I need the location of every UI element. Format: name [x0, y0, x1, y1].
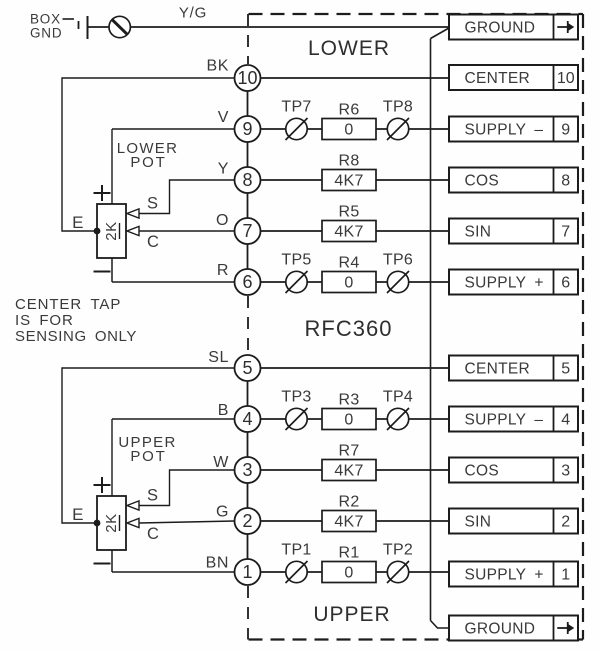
svg-text:5: 5	[561, 361, 570, 378]
plus polarity mark (upper pot)	[94, 477, 111, 493]
test point TP3	[286, 408, 308, 430]
svg-text:O: O	[216, 212, 229, 229]
value 0 of R1	[344, 565, 353, 582]
pin number 10	[237, 68, 257, 88]
potentiometer lower pot body 2K	[97, 204, 126, 258]
pin 1 circle	[235, 559, 261, 585]
resistor R5	[322, 221, 376, 242]
svg-text:G: G	[216, 504, 229, 521]
label O wire colour	[216, 212, 229, 229]
svg-text:0: 0	[344, 565, 353, 582]
svg-text:CENTER: CENTER	[465, 70, 531, 87]
wire lower pot sense S (from pin 8)	[139, 180, 235, 214]
value 4K7 of R8	[334, 173, 363, 190]
svg-text:SUPPLY +: SUPPLY +	[465, 567, 544, 584]
RFC360 module dashed outline (bottom border)	[249, 638, 584, 640]
svg-text:BN: BN	[206, 555, 229, 572]
wire upper pot sense S (from pin 3)	[139, 470, 235, 506]
label R4	[338, 255, 359, 272]
svg-text:0: 0	[344, 412, 353, 429]
svg-text:TP2: TP2	[383, 542, 413, 559]
svg-text:TP4: TP4	[383, 389, 413, 406]
label R1	[338, 545, 359, 562]
svg-text:4: 4	[242, 409, 252, 429]
value 2K of upper pot	[103, 513, 120, 532]
resistor R8	[322, 170, 376, 191]
wire lower pot wiper C (from pin 7)	[139, 230, 235, 232]
pin number 8	[242, 170, 252, 190]
svg-text:SENSING ONLY: SENSING ONLY	[15, 328, 137, 345]
svg-text:BOX: BOX	[30, 12, 61, 27]
screw terminal (box ground stud)	[109, 16, 130, 37]
pin number 9	[242, 119, 252, 139]
label R2	[338, 494, 359, 511]
svg-text:GROUND: GROUND	[465, 20, 536, 37]
wire Y/G (screw terminal to GROUND box)	[130, 26, 449, 28]
svg-text:4K7: 4K7	[334, 514, 363, 531]
svg-text:R1: R1	[338, 545, 359, 562]
svg-text:TP1: TP1	[281, 542, 311, 559]
svg-text:GROUND: GROUND	[465, 621, 536, 638]
label TP3	[281, 389, 311, 406]
signal box CENTER 10	[449, 65, 578, 90]
wire pin 8 to connector row	[260, 179, 450, 181]
resistor R4	[322, 272, 376, 293]
lower pot wiper arrow C	[127, 226, 139, 235]
pin 2 circle	[235, 508, 261, 534]
svg-text:R: R	[217, 262, 229, 279]
svg-text:R5: R5	[338, 204, 359, 221]
svg-text:0: 0	[344, 122, 353, 139]
node E junction dot (lower pot)	[94, 228, 101, 235]
svg-text:TP8: TP8	[383, 99, 413, 116]
wire pin 4 to connector row	[260, 418, 450, 420]
wire pin 1 to connector row	[260, 571, 450, 573]
signal box COS 3	[449, 458, 578, 483]
label R3	[338, 392, 359, 409]
svg-text:4K7: 4K7	[334, 224, 363, 241]
svg-text:1: 1	[561, 567, 570, 584]
svg-text:6: 6	[561, 275, 570, 292]
svg-text:C: C	[147, 525, 159, 543]
pin number 5	[242, 358, 252, 378]
RFC360 module dashed outline (left border, between pin 6 and pin 5)	[247, 296, 249, 354]
svg-text:BK: BK	[206, 58, 229, 75]
signal box SIN 7	[449, 219, 578, 244]
ground arrow symbol (lower)	[557, 622, 574, 634]
label SL wire colour	[208, 349, 229, 366]
label TP6	[383, 252, 413, 269]
note CENTER TAP IS FOR SENSING ONLY	[15, 296, 137, 345]
label RFC360 (module name)	[305, 316, 393, 341]
node E junction dot (upper pot)	[94, 520, 101, 527]
svg-text:POT: POT	[130, 448, 166, 465]
svg-text:8: 8	[561, 173, 570, 190]
svg-text:9: 9	[561, 122, 570, 139]
svg-text:2: 2	[561, 514, 570, 531]
label V wire colour	[218, 109, 229, 126]
label Y/G	[179, 5, 207, 22]
svg-text:Y/G: Y/G	[179, 5, 207, 22]
label G wire colour	[216, 504, 229, 521]
svg-text:LOWER: LOWER	[308, 37, 390, 60]
svg-text:10: 10	[237, 68, 257, 88]
resistor R1	[322, 562, 376, 583]
potentiometer upper pot body 2K	[97, 496, 126, 550]
label BK wire colour	[206, 58, 229, 75]
wire pin 10 to connector row	[260, 77, 450, 79]
svg-text:IS FOR: IS FOR	[15, 312, 74, 329]
svg-text:W: W	[213, 454, 229, 471]
signal box COS 8	[449, 168, 578, 193]
svg-text:5: 5	[242, 358, 252, 378]
svg-text:COS: COS	[465, 463, 500, 480]
svg-text:7: 7	[561, 224, 570, 241]
wire lower pot center tap E (from pin 10)	[62, 78, 235, 231]
pin number 3	[242, 460, 252, 480]
wire pin 3 to connector row	[260, 469, 450, 471]
wire upper pot center tap E (from pin 5)	[62, 368, 235, 523]
svg-text:SIN: SIN	[465, 224, 492, 241]
wire upper pot wiper C (from pin 2)	[139, 521, 235, 523]
svg-text:C: C	[147, 233, 159, 251]
label Y wire colour	[218, 161, 229, 178]
signal box SUPPLY&#8194;+ 6	[449, 270, 578, 295]
svg-text:B: B	[218, 402, 229, 419]
value 0 of R3	[344, 412, 353, 429]
wire upper pot - supply (from pin 1)	[112, 550, 235, 572]
svg-text:CENTER: CENTER	[465, 361, 531, 378]
minus polarity mark (lower pot)	[94, 271, 111, 273]
pin 8 circle	[235, 167, 261, 193]
svg-text:4K7: 4K7	[334, 463, 363, 480]
RFC360 module dashed outline (right border)	[582, 14, 584, 640]
svg-text:0: 0	[344, 275, 353, 292]
svg-text:RFC360: RFC360	[305, 316, 393, 341]
signal box SUPPLY&#8194;&#8211; 4	[449, 407, 578, 432]
label C (upper pot)	[147, 525, 159, 543]
test point TP5	[286, 271, 308, 293]
wire pin 6 to connector row	[260, 281, 450, 283]
svg-text:SIN: SIN	[465, 514, 492, 531]
pin 9 circle	[235, 116, 261, 142]
value 0 of R6	[344, 122, 353, 139]
label W wire colour	[213, 454, 229, 471]
wire lower pot + supply (from pin 9)	[112, 129, 235, 204]
svg-text:TP7: TP7	[281, 99, 311, 116]
value 0 of R4	[344, 275, 353, 292]
label S (upper pot)	[147, 487, 158, 505]
test point TP4	[387, 408, 409, 430]
label TP7	[281, 99, 311, 116]
signal box SUPPLY&#8194;+ 1	[449, 562, 578, 587]
wire ground symbol to screw terminal	[88, 26, 110, 28]
wire pin 9 to connector row	[260, 128, 450, 130]
test point TP6	[387, 271, 409, 293]
label BN wire colour	[206, 555, 229, 572]
wire ground bus (corner to lower GROUND box)	[431, 621, 450, 629]
svg-text:SUPPLY +: SUPPLY +	[465, 275, 544, 292]
label R5	[338, 204, 359, 221]
svg-text:UPPER: UPPER	[313, 603, 390, 626]
label UPPER (module section)	[313, 603, 390, 626]
wire ground bus (vertical)	[430, 39, 432, 621]
wire pin interconnect 5-1 (upper bank common)	[247, 355, 249, 585]
svg-text:2K: 2K	[103, 221, 120, 240]
signal box GROUND (upper)	[449, 15, 578, 40]
pin 3 circle	[235, 457, 261, 483]
resistor R2	[322, 511, 376, 532]
wire pin 7 to connector row	[260, 230, 450, 232]
resistor R6	[322, 119, 376, 140]
label TP2	[383, 542, 413, 559]
pin number 2	[242, 511, 252, 531]
label BOX GND	[30, 12, 74, 41]
label R7	[338, 443, 359, 460]
label TP4	[383, 389, 413, 406]
value 4K7 of R7	[334, 463, 363, 480]
test point TP2	[387, 561, 409, 583]
label TP5	[281, 252, 311, 269]
svg-text:3: 3	[242, 460, 252, 480]
svg-text:R6: R6	[338, 102, 359, 119]
label R8	[338, 153, 359, 170]
svg-text:GND: GND	[30, 26, 62, 41]
RFC360 module dashed outline (left border, above pin 10)	[247, 14, 249, 64]
label S (lower pot)	[147, 195, 158, 213]
svg-text:1: 1	[242, 562, 252, 582]
svg-text:6: 6	[242, 272, 252, 292]
wire ground bus (diagonal from GROUND box)	[431, 28, 450, 39]
chassis ground symbol	[79, 16, 88, 39]
svg-text:CENTER TAP: CENTER TAP	[15, 296, 121, 313]
label R6	[338, 102, 359, 119]
label LOWER (module section)	[308, 37, 390, 60]
svg-text:8: 8	[242, 170, 252, 190]
svg-text:2: 2	[242, 511, 252, 531]
svg-text:2K: 2K	[103, 513, 120, 532]
svg-text:4K7: 4K7	[334, 173, 363, 190]
minus polarity mark (upper pot)	[94, 563, 111, 565]
RFC360 module dashed outline (left border, below pin 1)	[247, 586, 249, 640]
signal box GROUND (lower)	[449, 616, 578, 641]
svg-text:SL: SL	[208, 349, 229, 366]
resistor R7	[322, 460, 376, 481]
pin 6 circle	[235, 269, 261, 295]
wire pin interconnect 10-6 (lower bank common)	[247, 65, 249, 295]
lower pot wiper sense arrow S	[127, 209, 139, 218]
svg-text:7: 7	[242, 221, 252, 241]
svg-text:POT: POT	[130, 154, 166, 171]
label TP1	[281, 542, 311, 559]
pin number 7	[242, 221, 252, 241]
svg-text:TP6: TP6	[383, 252, 413, 269]
signal box SUPPLY&#8194;&#8211; 9	[449, 117, 578, 142]
plus polarity mark (lower pot)	[94, 185, 111, 201]
label TP8	[383, 99, 413, 116]
svg-text:3: 3	[561, 463, 570, 480]
resistor R3	[322, 409, 376, 430]
value 4K7 of R5	[334, 224, 363, 241]
svg-text:R8: R8	[338, 153, 359, 170]
upper pot wiper arrow C	[127, 518, 139, 527]
label UPPER POT	[118, 434, 176, 465]
svg-text:10: 10	[557, 70, 575, 87]
label LOWER POT	[117, 140, 179, 171]
label R wire colour	[217, 262, 229, 279]
value 4K7 of R2	[334, 514, 363, 531]
svg-text:SUPPLY –: SUPPLY –	[465, 412, 544, 429]
signal box CENTER 5	[449, 356, 578, 381]
test point TP1	[286, 561, 308, 583]
pin number 1	[242, 562, 252, 582]
svg-text:S: S	[147, 487, 158, 505]
test point TP8	[387, 118, 409, 140]
wire upper pot + supply (from pin 4)	[112, 419, 235, 496]
pin number 6	[242, 272, 252, 292]
svg-text:S: S	[147, 195, 158, 213]
ground arrow symbol (upper)	[557, 21, 574, 33]
svg-text:TP5: TP5	[281, 252, 311, 269]
pin 7 circle	[235, 218, 261, 244]
RFC360 module dashed outline (top border)	[249, 13, 584, 15]
svg-text:V: V	[218, 109, 229, 126]
svg-text:R4: R4	[338, 255, 359, 272]
svg-text:Y: Y	[218, 161, 229, 178]
svg-text:COS: COS	[465, 173, 500, 190]
upper pot wiper sense arrow S	[127, 501, 139, 510]
svg-text:4: 4	[561, 412, 570, 429]
svg-text:E: E	[72, 505, 83, 524]
svg-text:TP3: TP3	[281, 389, 311, 406]
signal box SIN 2	[449, 509, 578, 534]
pin 5 circle	[235, 355, 261, 381]
wire pin 5 to connector row	[260, 367, 450, 369]
svg-text:R3: R3	[338, 392, 359, 409]
label E (lower pot)	[72, 213, 83, 232]
svg-text:SUPPLY –: SUPPLY –	[465, 122, 544, 139]
value 2K of lower pot	[103, 221, 120, 240]
label B wire colour	[218, 402, 229, 419]
svg-text:R7: R7	[338, 443, 359, 460]
pin number 4	[242, 409, 252, 429]
pin 4 circle	[235, 406, 261, 432]
wire lower pot - supply (from pin 6)	[112, 258, 235, 282]
wire pin 2 to connector row	[260, 520, 450, 522]
label E (upper pot)	[72, 505, 83, 524]
label C (lower pot)	[147, 233, 159, 251]
test point TP7	[286, 118, 308, 140]
pin 10 circle	[235, 65, 261, 91]
svg-text:9: 9	[242, 119, 252, 139]
svg-text:E: E	[72, 213, 83, 232]
svg-text:R2: R2	[338, 494, 359, 511]
